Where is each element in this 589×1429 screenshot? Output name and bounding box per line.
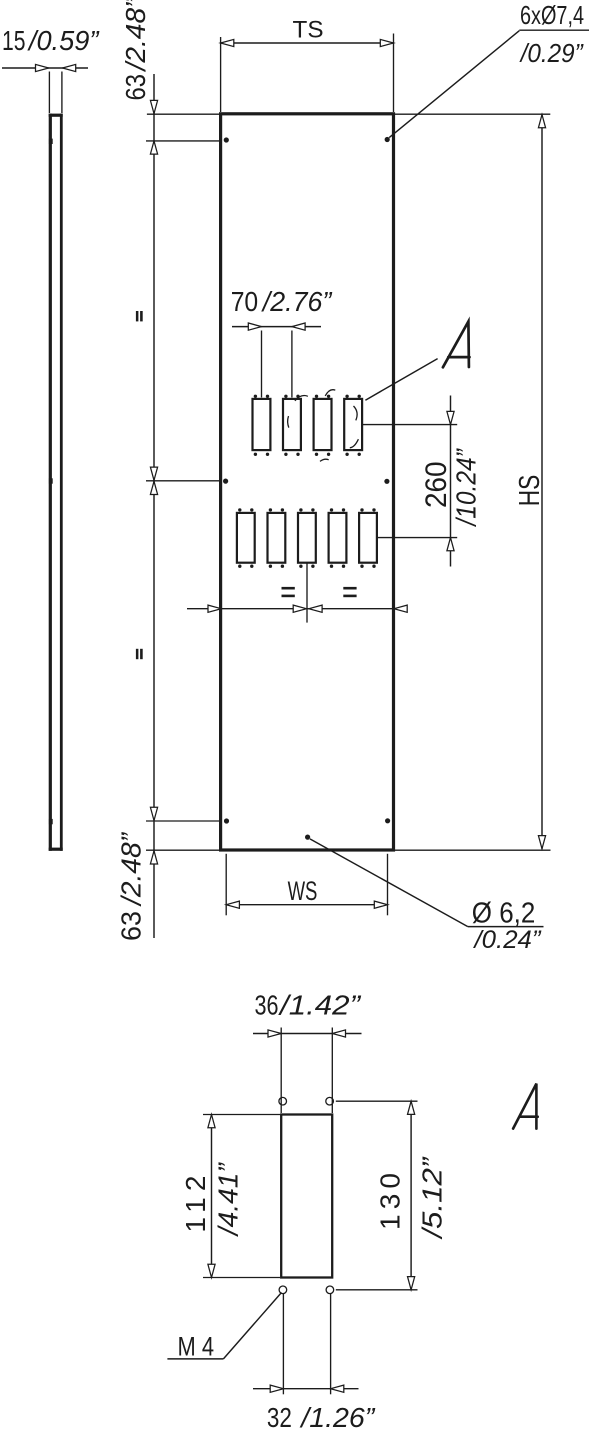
svg-text:32: 32 xyxy=(267,1402,292,1429)
svg-text:/2.48”: /2.48” xyxy=(120,0,151,73)
svg-text:/0.59”: /0.59” xyxy=(27,25,100,56)
svg-text:130: 130 xyxy=(374,1173,405,1230)
svg-text:70: 70 xyxy=(231,286,259,317)
svg-text:/1.42”: /1.42” xyxy=(278,990,362,1021)
svg-text:TS: TS xyxy=(293,16,324,43)
svg-text:6xØ7,4: 6xØ7,4 xyxy=(520,0,584,30)
svg-text:63: 63 xyxy=(115,911,146,941)
svg-text:/4.41”: /4.41” xyxy=(213,1161,244,1237)
svg-text:/0.29”: /0.29” xyxy=(519,38,584,68)
svg-text:36: 36 xyxy=(255,990,279,1021)
svg-text:WS: WS xyxy=(288,876,318,906)
svg-text:/10.24”: /10.24” xyxy=(451,448,482,528)
svg-text:/2.48”: /2.48” xyxy=(115,831,146,907)
svg-text:/0.24”: /0.24” xyxy=(472,926,542,954)
svg-text:HS: HS xyxy=(514,475,546,507)
svg-text:/5.12”: /5.12” xyxy=(417,1156,448,1240)
svg-text:Ø 6,2: Ø 6,2 xyxy=(472,898,536,930)
svg-text:63: 63 xyxy=(120,74,151,101)
svg-text:112: 112 xyxy=(180,1176,211,1233)
svg-text:/1.26”: /1.26” xyxy=(299,1402,376,1429)
svg-text:15: 15 xyxy=(2,25,26,56)
svg-text:/2.76”: /2.76” xyxy=(261,286,333,317)
svg-text:M 4: M 4 xyxy=(178,1332,215,1362)
svg-text:260: 260 xyxy=(420,461,453,508)
